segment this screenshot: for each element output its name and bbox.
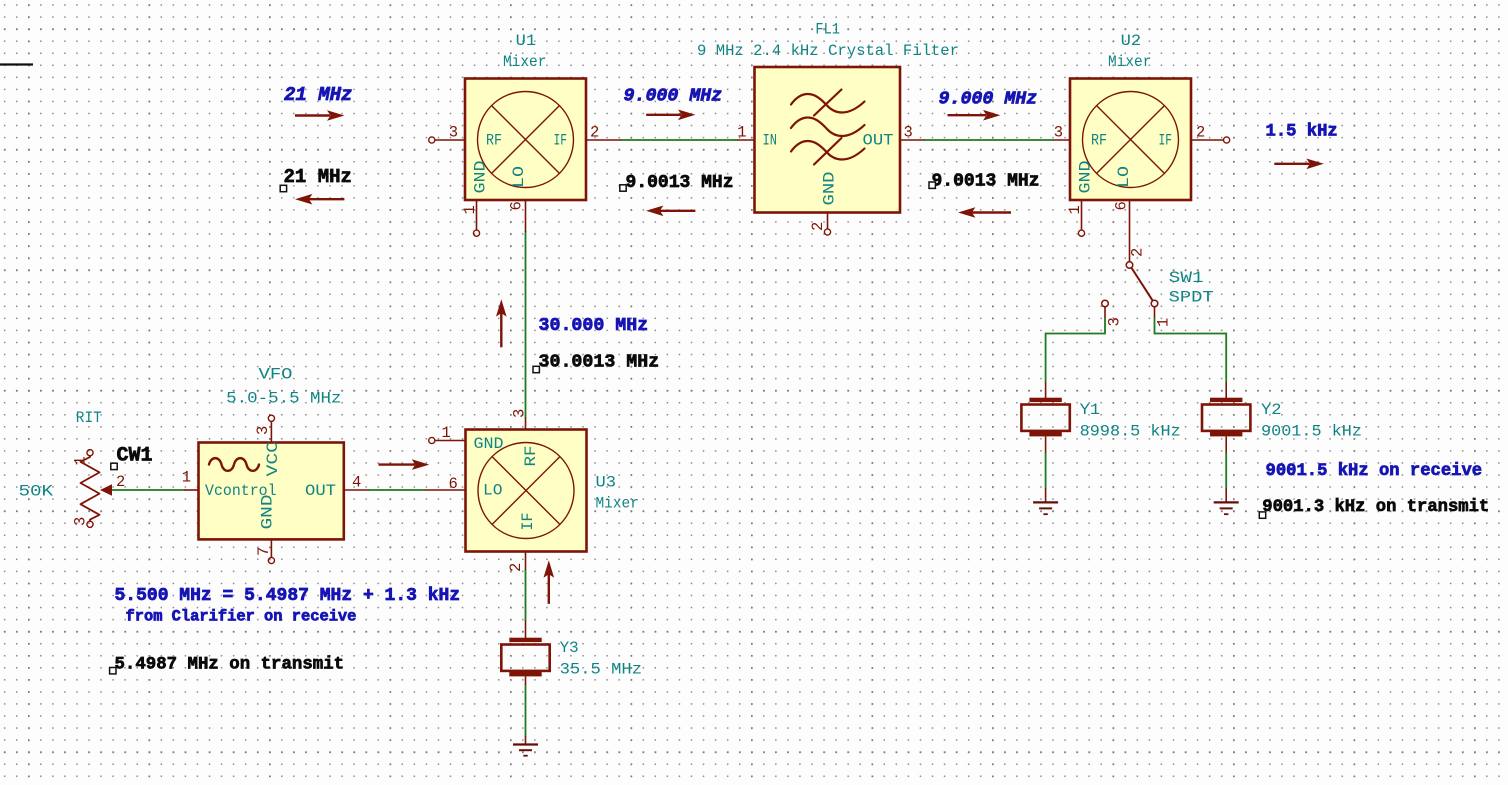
svg-text:9.000 MHz: 9.000 MHz bbox=[939, 90, 1038, 110]
svg-text:CW1: CW1 bbox=[117, 445, 153, 468]
svg-text:9.000 MHz: 9.000 MHz bbox=[624, 87, 723, 107]
VFO pin 1 bbox=[184, 489, 199, 491]
svg-text:2: 2 bbox=[590, 124, 599, 142]
crystal Y2 9001.5 kHz bbox=[1202, 382, 1362, 453]
svg-text:Y2: Y2 bbox=[1261, 401, 1282, 419]
svg-text:RF: RF bbox=[1091, 132, 1107, 150]
text anchor square (CW1) bbox=[111, 463, 117, 469]
svg-text:OUT: OUT bbox=[305, 482, 336, 500]
U1 body bbox=[465, 79, 586, 201]
FL1 wave glyph bottom bbox=[791, 141, 865, 160]
arrow left (9.0013 left) bbox=[646, 206, 695, 217]
svg-text:IF: IF bbox=[554, 132, 568, 150]
RIT wiper arrow pin 2 bbox=[100, 484, 112, 496]
svg-text:50K: 50K bbox=[19, 483, 54, 501]
svg-text:9.0013 MHz: 9.0013 MHz bbox=[626, 173, 734, 193]
FL1 wave slash top bbox=[814, 90, 842, 116]
sheet border fragment top-left bbox=[0, 63, 33, 65]
svg-text:LO: LO bbox=[483, 482, 503, 500]
svg-text:1.5 kHz: 1.5 kHz bbox=[1266, 123, 1338, 142]
svg-text:3: 3 bbox=[1054, 124, 1063, 142]
svg-text:SW1: SW1 bbox=[1169, 269, 1204, 287]
svg-text:5.4987 MHz on transmit: 5.4987 MHz on transmit bbox=[115, 656, 345, 675]
wire Y3 to ground bbox=[525, 685, 527, 737]
arrow right (21 MHz receive) bbox=[295, 110, 344, 121]
svg-text:RIT: RIT bbox=[76, 409, 102, 427]
svg-text:1: 1 bbox=[461, 205, 479, 214]
U3 pin 6 bbox=[425, 489, 466, 491]
text anchor square (5.4987) bbox=[110, 668, 116, 674]
svg-text:2: 2 bbox=[1196, 124, 1205, 142]
crystal Y3 35.5 MHz bbox=[501, 621, 642, 686]
wire U1 pin6 to U3 pin3 (30 MHz LO net) bbox=[525, 231, 527, 419]
arrow left (9.0013 right) bbox=[958, 207, 1011, 218]
svg-text:GND: GND bbox=[472, 161, 490, 194]
VFO sine glyph bbox=[209, 458, 259, 471]
Y1 bottom plate bbox=[1029, 432, 1061, 436]
svg-text:3: 3 bbox=[511, 409, 529, 418]
svg-text:6: 6 bbox=[1113, 201, 1131, 210]
FL1 pin 1 bbox=[737, 139, 755, 141]
FL1 wave glyph middle bbox=[791, 118, 865, 137]
svg-text:RF: RF bbox=[486, 132, 502, 150]
svg-text:IN: IN bbox=[763, 132, 778, 150]
svg-text:6: 6 bbox=[508, 201, 526, 210]
svg-text:8998.5 kHz: 8998.5 kHz bbox=[1080, 423, 1181, 441]
mixer U1 bbox=[429, 32, 621, 236]
text anchor square (9001.3) bbox=[1259, 512, 1265, 518]
svg-text:1: 1 bbox=[1066, 205, 1084, 214]
U3 pin 2 bbox=[525, 552, 527, 570]
svg-text:U3: U3 bbox=[596, 474, 617, 492]
svg-text:35.5 MHz: 35.5 MHz bbox=[560, 661, 642, 679]
Y3 body bbox=[501, 645, 549, 671]
svg-text:21 MHz: 21 MHz bbox=[284, 84, 352, 106]
U1 mixer X bbox=[492, 106, 560, 174]
VFO pin 3 bbox=[270, 422, 272, 443]
U3 pin 1 bbox=[435, 440, 466, 442]
arrow up (30 MHz net) bbox=[496, 299, 507, 347]
potentiometer RIT 50K bbox=[19, 409, 126, 527]
svg-text:IF: IF bbox=[519, 513, 537, 531]
svg-text:U1: U1 bbox=[516, 32, 537, 50]
Y3 top plate bbox=[509, 638, 541, 642]
svg-text:GND: GND bbox=[1077, 161, 1095, 194]
wire SW1 pin1 to Y2 bbox=[1155, 318, 1227, 382]
U3 mixer X bbox=[492, 457, 560, 525]
svg-text:2: 2 bbox=[507, 563, 525, 572]
svg-text:2: 2 bbox=[1129, 248, 1147, 257]
svg-text:GND: GND bbox=[474, 435, 504, 453]
U3 mixer circle bbox=[478, 443, 574, 539]
VFO U? (Vcontrol VCO) bbox=[182, 366, 369, 564]
svg-text:Mixer: Mixer bbox=[1108, 53, 1151, 71]
svg-text:SPDT: SPDT bbox=[1169, 289, 1214, 307]
switch SW1 SPDT bbox=[1102, 248, 1214, 327]
svg-text:LO: LO bbox=[1115, 166, 1133, 188]
svg-text:3: 3 bbox=[904, 124, 913, 142]
svg-text:9001.5 kHz: 9001.5 kHz bbox=[1261, 423, 1362, 441]
U1 pin 2 bbox=[586, 139, 621, 141]
svg-text:U2: U2 bbox=[1121, 32, 1142, 50]
svg-text:IF: IF bbox=[1159, 132, 1173, 150]
svg-text:LO: LO bbox=[510, 166, 528, 188]
mixer U2 bbox=[1053, 32, 1230, 262]
arrow left (21 MHz transmit) bbox=[295, 194, 344, 205]
SW1 lever bbox=[1132, 268, 1153, 301]
U2 pin 3 bbox=[1053, 139, 1070, 141]
svg-text:9.0013 MHz: 9.0013 MHz bbox=[932, 172, 1040, 192]
text anchor square (30.0013) bbox=[533, 366, 539, 372]
FL1 wave slash bottom bbox=[814, 138, 842, 165]
Y1 top lead bbox=[1045, 382, 1047, 398]
crystal filter FL1 bbox=[697, 21, 959, 236]
svg-text:GND: GND bbox=[821, 172, 839, 206]
svg-text:4: 4 bbox=[352, 474, 361, 492]
Y2 body bbox=[1202, 405, 1250, 431]
svg-text:5.0-5.5 MHz: 5.0-5.5 MHz bbox=[226, 390, 341, 408]
U1 pin 3 bbox=[435, 139, 465, 141]
Y2 bottom lead bbox=[1225, 436, 1227, 452]
crystal Y1 8998.5 kHz bbox=[1021, 382, 1180, 453]
FL1 pin 3 bbox=[900, 139, 925, 141]
U1 pin 1 bbox=[476, 200, 478, 230]
FL1 body bbox=[755, 67, 901, 213]
wire VFO OUT pin4 to U3 pin6 bbox=[368, 489, 426, 491]
Y1 top plate bbox=[1029, 398, 1061, 402]
FL1 wave glyph top bbox=[791, 94, 865, 113]
arrow right (9.000 MHz right) bbox=[948, 110, 1001, 121]
wire U1 pin2 to FL1 pin1 (9 MHz net) bbox=[621, 139, 738, 141]
svg-text:Y3: Y3 bbox=[560, 639, 579, 657]
svg-text:3: 3 bbox=[72, 517, 90, 526]
U1 pin 6 bbox=[525, 200, 527, 232]
Y2 top lead bbox=[1225, 382, 1227, 398]
SW1 pin 3 terminal bbox=[1102, 300, 1109, 307]
Y3 bottom lead bbox=[525, 676, 527, 685]
U1 mixer circle bbox=[478, 92, 574, 188]
FL1 pin 2 bbox=[827, 213, 829, 230]
wire FL1 pin3 to U2 pin3 (9 MHz net) bbox=[924, 139, 1054, 141]
U2 body bbox=[1070, 79, 1191, 201]
svg-text:1: 1 bbox=[442, 424, 451, 442]
RIT pin 1 terminal bbox=[87, 450, 93, 456]
svg-text:3: 3 bbox=[1106, 317, 1124, 326]
svg-text:5.500 MHz = 5.4987 MHz + 1.3 k: 5.500 MHz = 5.4987 MHz + 1.3 kHz bbox=[115, 586, 461, 606]
svg-text:9 MHz 2.4 kHz Crystal Filter: 9 MHz 2.4 kHz Crystal Filter bbox=[697, 42, 959, 60]
VFO pin 4 bbox=[344, 489, 369, 491]
U3 body bbox=[466, 430, 587, 552]
svg-text:9001.3 kHz on transmit: 9001.3 kHz on transmit bbox=[1262, 498, 1489, 517]
svg-text:Y1: Y1 bbox=[1080, 401, 1101, 419]
svg-text:30.000 MHz: 30.000 MHz bbox=[539, 316, 649, 336]
Y3 top lead bbox=[525, 621, 527, 639]
arrow up (35.5 MHz into U3) bbox=[544, 560, 555, 604]
svg-text:1: 1 bbox=[182, 469, 191, 487]
svg-text:9001.5 kHz on receive: 9001.5 kHz on receive bbox=[1266, 462, 1483, 481]
svg-text:30.0013 MHz: 30.0013 MHz bbox=[539, 353, 660, 373]
VFO pin 7 bbox=[270, 539, 272, 557]
VFO body bbox=[199, 443, 344, 540]
svg-text:1: 1 bbox=[1155, 318, 1173, 327]
U2 mixer circle bbox=[1083, 92, 1179, 188]
text anchor square (21 MHz) bbox=[280, 185, 286, 191]
arrow right (VFO to U3) bbox=[379, 459, 430, 470]
Y1 body bbox=[1021, 405, 1069, 431]
SW1 pin 1 terminal bbox=[1151, 300, 1158, 307]
ground at Y1 bbox=[1033, 488, 1058, 514]
arrow right (1.5 kHz) bbox=[1274, 159, 1324, 170]
text anchor square (9.0013 right) bbox=[929, 182, 935, 188]
svg-text:3: 3 bbox=[449, 124, 458, 142]
wire Y2 to ground bbox=[1225, 452, 1227, 489]
svg-text:Mixer: Mixer bbox=[503, 53, 546, 71]
svg-text:2: 2 bbox=[116, 473, 125, 491]
svg-text:3: 3 bbox=[254, 426, 272, 435]
svg-text:FL1: FL1 bbox=[815, 21, 840, 39]
U3 pin 3 bbox=[525, 418, 527, 430]
svg-text:RF: RF bbox=[522, 446, 540, 467]
svg-text:VCC: VCC bbox=[264, 441, 282, 477]
svg-text:from Clarifier on receive: from Clarifier on receive bbox=[126, 608, 357, 626]
svg-text:OUT: OUT bbox=[863, 132, 894, 150]
Y2 bottom plate bbox=[1210, 432, 1242, 436]
mixer U3 bbox=[425, 409, 639, 572]
wire U3 pin2 to Y3 bbox=[525, 569, 527, 621]
RIT pin 3 terminal bbox=[87, 521, 93, 527]
svg-text:2: 2 bbox=[809, 222, 827, 231]
Y2 top plate bbox=[1210, 398, 1242, 402]
Y1 bottom lead bbox=[1045, 436, 1047, 452]
U2 pin 6 bbox=[1129, 200, 1131, 262]
svg-text:VFO: VFO bbox=[259, 366, 293, 384]
U2 pin 1 bbox=[1081, 200, 1083, 230]
svg-text:7: 7 bbox=[255, 547, 273, 556]
arrow right (9.000 MHz left) bbox=[646, 110, 695, 121]
U2 mixer X bbox=[1097, 106, 1165, 174]
Y3 bottom plate bbox=[509, 672, 541, 676]
SW1 pin 2 terminal bbox=[1126, 262, 1133, 269]
ground at Y2 bbox=[1214, 488, 1239, 514]
wire RIT wiper to VFO pin1 bbox=[111, 489, 185, 491]
svg-text:21 MHz: 21 MHz bbox=[284, 166, 352, 188]
wire SW1 pin3 to Y1 bbox=[1046, 318, 1105, 382]
wire Y1 to ground bbox=[1045, 452, 1047, 489]
text anchor square (9.0013 left) bbox=[620, 185, 626, 191]
svg-text:Mixer: Mixer bbox=[596, 495, 639, 513]
svg-text:GND: GND bbox=[259, 495, 277, 530]
svg-text:1: 1 bbox=[737, 124, 746, 142]
RIT resistor zigzag bbox=[81, 456, 100, 521]
svg-text:6: 6 bbox=[449, 475, 458, 493]
ground at Y3 bbox=[513, 736, 538, 756]
U2 pin 2 bbox=[1191, 139, 1223, 141]
